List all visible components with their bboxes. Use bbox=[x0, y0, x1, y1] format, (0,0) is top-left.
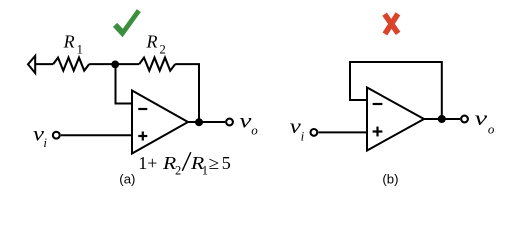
svg-text:v: v bbox=[475, 108, 488, 130]
op-amp U2 (circuit b) bbox=[367, 88, 424, 151]
wire R2 to output node (top-right corner, down) bbox=[175, 64, 199, 122]
svg-text:R: R bbox=[146, 32, 158, 52]
wire arrow to R1 bbox=[35, 63, 53, 65]
svg-text:1: 1 bbox=[202, 163, 208, 177]
feedback wire loop (circuit b) bbox=[350, 62, 442, 119]
input terminal vi (circuit b) bbox=[311, 129, 318, 136]
output node dot (circuit a) bbox=[195, 118, 203, 126]
resistor R1 bbox=[53, 58, 89, 71]
svg-text:o: o bbox=[488, 121, 495, 136]
label vo (circuit a) bbox=[239, 110, 258, 137]
wire vi to noninverting input bbox=[61, 134, 132, 136]
svg-text:o: o bbox=[251, 123, 258, 138]
wire op-amp output to terminal bbox=[188, 121, 225, 123]
svg-text:1+: 1+ bbox=[138, 153, 157, 173]
output terminal vo (circuit a) bbox=[226, 119, 233, 126]
label R1 bbox=[63, 32, 83, 57]
svg-text:i: i bbox=[43, 135, 47, 150]
output terminal vo (circuit b) bbox=[461, 116, 468, 123]
feedback wire junction to inverting input bbox=[116, 64, 133, 103]
wire op-amp output to terminal (circuit b) bbox=[424, 118, 460, 120]
label vi (circuit a) bbox=[33, 123, 47, 150]
svg-text:i: i bbox=[301, 128, 305, 143]
label vi (circuit b) bbox=[290, 116, 305, 144]
svg-text:5: 5 bbox=[222, 153, 231, 173]
svg-text:v: v bbox=[239, 110, 251, 132]
label R2 bbox=[146, 32, 166, 57]
svg-text:(b): (b) bbox=[382, 171, 398, 186]
op-amp U1 (circuit a) bbox=[132, 91, 188, 154]
resistor R2 bbox=[139, 58, 175, 71]
svg-text:2: 2 bbox=[160, 43, 166, 57]
wire R1 to R2 bbox=[89, 63, 139, 65]
checkmark (correct) bbox=[113, 9, 141, 37]
label vo (circuit b) bbox=[475, 108, 495, 136]
svg-text:1: 1 bbox=[77, 43, 83, 57]
input arrow (off-page connector, circuit a) bbox=[28, 56, 35, 73]
input terminal vi (circuit a) bbox=[53, 132, 60, 139]
gain condition formula bbox=[138, 152, 231, 177]
svg-text:v: v bbox=[290, 116, 301, 138]
svg-text:≥: ≥ bbox=[209, 153, 220, 173]
output node dot (circuit b) bbox=[438, 115, 446, 123]
svg-text:2: 2 bbox=[175, 163, 181, 177]
node junction (R1/R2/feedback) bbox=[111, 61, 119, 69]
svg-text:(a): (a) bbox=[119, 171, 135, 186]
wire vi to noninverting input (circuit b) bbox=[318, 131, 367, 133]
svg-text:R: R bbox=[63, 32, 75, 52]
X mark (incorrect) bbox=[385, 14, 399, 34]
